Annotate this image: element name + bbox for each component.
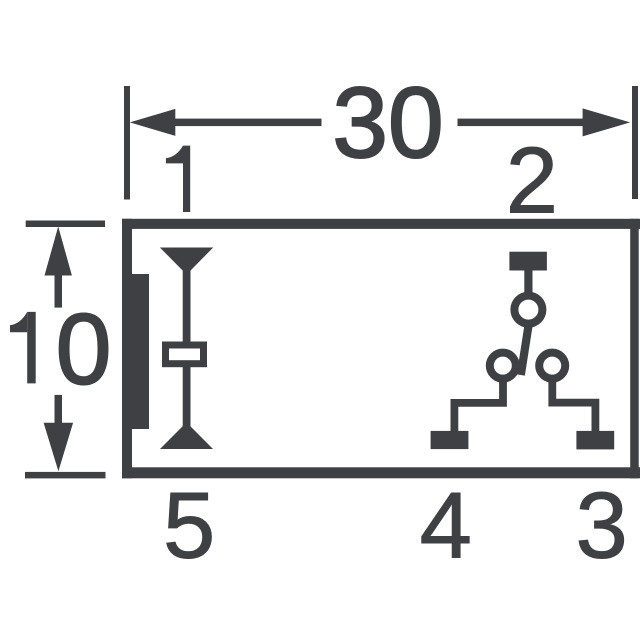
coil vertical lead (pin 1 to pin 5) [183,255,191,435]
relay case outline bottom edge [122,467,640,478]
svg-text:2: 2 [506,128,558,233]
dimension line 30 right segment [458,119,587,127]
relay case outline right edge [630,219,639,479]
movable contact blade [521,325,529,375]
dimension text 10: digit 1 custom glyph [10,312,36,384]
svg-text:4: 4 [420,473,472,578]
svg-text:3: 3 [576,473,628,578]
svg-text:30: 30 [332,67,443,179]
coil resistor box [166,345,204,364]
wire NO circle to pin 3 pad [552,378,595,432]
lead from pad to common contact circle [524,268,532,296]
dimension tick bottom of 10 [25,472,106,479]
svg-text:5: 5 [163,473,215,578]
coil top triangle [160,248,213,275]
dimension tick top of 10 [26,221,105,228]
pin 2 pad (common contact) [509,252,547,271]
polarity tab on left wall [130,274,149,429]
arrowhead up of 10 dimension [45,227,72,276]
wire NC circle to pin 4 pad [454,378,503,432]
NO contact circle (pin 3 side) [539,353,565,379]
arrowhead right of 30 dimension [583,108,631,136]
dimension extension line right (above pin 2) [632,86,638,199]
dimension line 10 upper segment [55,275,63,308]
NC contact circle (pin 4 side) [490,353,516,379]
pin 4 pad [431,431,469,449]
relay case outline top edge [122,219,640,229]
dimension extension line left (above pin 1) [124,86,130,200]
arrowhead left of 30 dimension [130,109,176,136]
dimension line 10 lower segment [55,395,63,423]
relay case outline left edge [122,219,132,479]
pin label 1 (custom glyph) [166,146,190,212]
arrowhead down of 10 dimension [44,423,74,471]
svg-text:0: 0 [56,293,112,405]
common contact circle [514,296,542,324]
pin 3 pad [576,431,614,450]
coil bottom triangle [160,422,213,449]
dimension line 30 left segment [173,119,322,127]
